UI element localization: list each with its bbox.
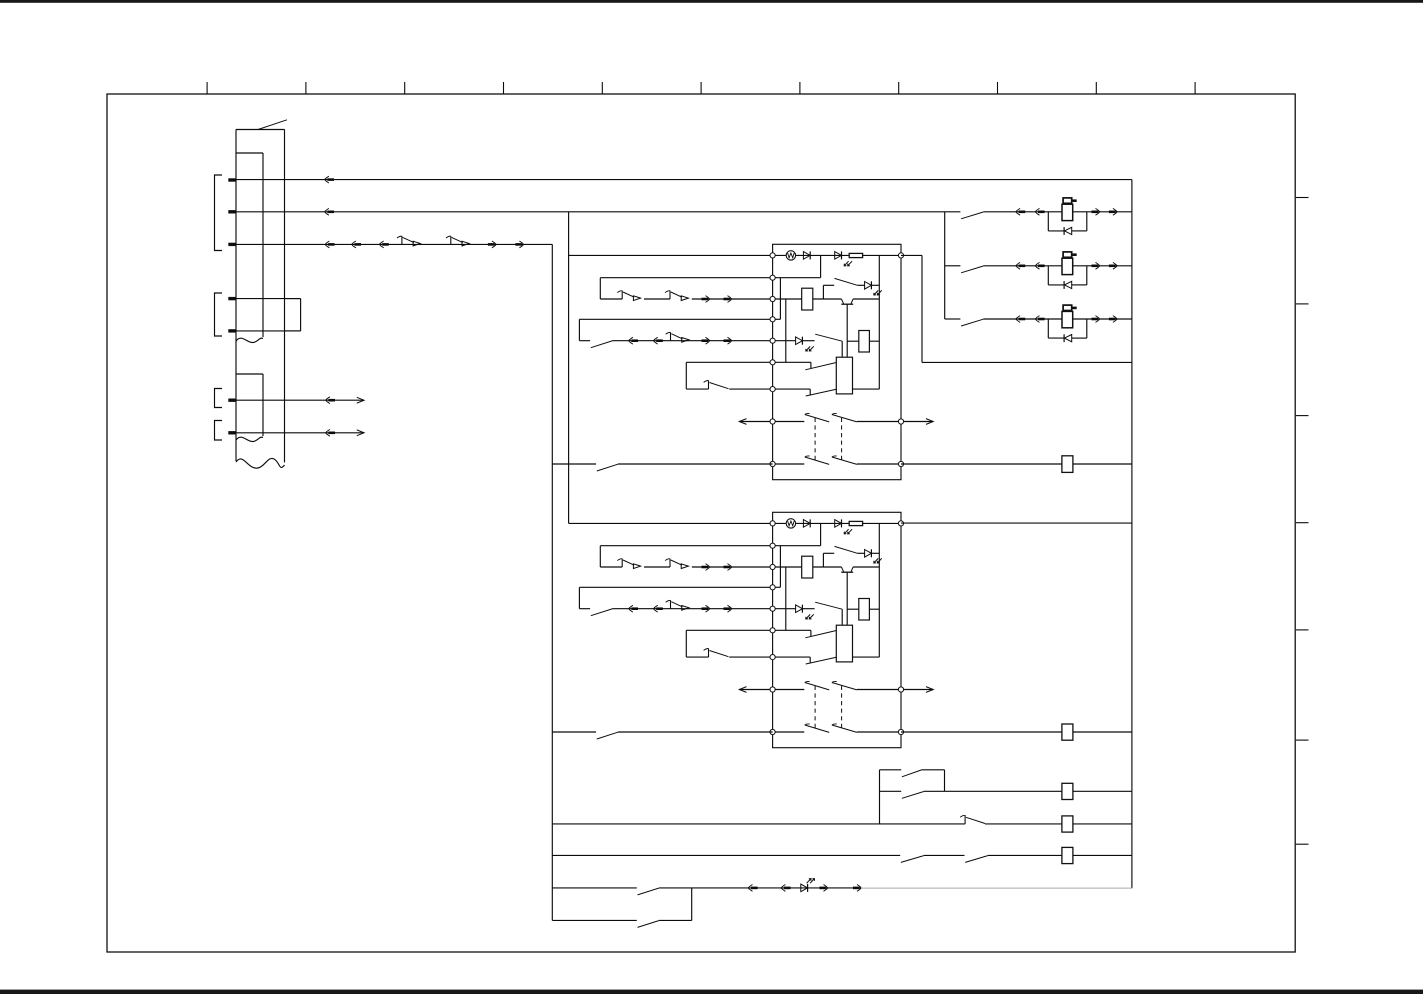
wire pin2 net bbox=[773, 277, 821, 279]
diode D2c bbox=[857, 552, 864, 554]
internal vertical A bbox=[779, 278, 781, 320]
switch blade row 2 bbox=[961, 266, 983, 273]
right ruler tick marks bbox=[1296, 198, 1309, 845]
row9 contacts bbox=[773, 463, 805, 465]
LED D10 bbox=[801, 884, 808, 892]
fuse F1 bbox=[1062, 456, 1073, 473]
flyback diode of Y3 bbox=[1063, 334, 1065, 342]
diode D2a bbox=[803, 520, 810, 528]
fuse F3 bbox=[1062, 783, 1073, 799]
row 888 faint continuation bbox=[861, 887, 1132, 889]
harness pin terminal 6 bbox=[228, 399, 236, 402]
row8 right arrow bbox=[901, 689, 933, 691]
coil to transistor wire bbox=[813, 566, 842, 568]
LED D2d bbox=[796, 605, 803, 613]
connector pairs loop1 unit 1 bbox=[702, 298, 709, 301]
cam switch loop3 unit 1 bbox=[708, 380, 710, 389]
cam switch row 824 bbox=[964, 815, 966, 824]
transistor Q2 bbox=[841, 567, 843, 572]
bracket group pins 1-3 bbox=[215, 175, 223, 251]
arrow head pin7 wire bbox=[357, 430, 364, 436]
LED D2d emission arrows bbox=[806, 614, 810, 619]
contact blade pin6 bbox=[805, 363, 836, 370]
unit 2 top supply wire bbox=[773, 522, 901, 524]
solenoid valve Y1 snubber loop bbox=[1047, 212, 1049, 231]
row 824 wire bbox=[552, 823, 965, 825]
wire pin3 to relay coil bbox=[773, 566, 802, 568]
connector pairs on W3 bbox=[325, 241, 329, 248]
switch blade row 920 bbox=[638, 921, 659, 928]
fuse F2 bbox=[1062, 724, 1073, 740]
wire W3 bbox=[229, 243, 552, 245]
wire W2 bbox=[229, 211, 960, 213]
harness pin terminal 1 bbox=[228, 178, 236, 181]
motor M1 bbox=[786, 251, 795, 260]
harness pin terminal 7 bbox=[228, 431, 236, 434]
diode D1c bbox=[857, 284, 864, 286]
harness connector plug block bbox=[300, 299, 302, 331]
solenoid valve Y2 snubber loop bbox=[1047, 266, 1049, 285]
contact blade pin7 bbox=[806, 657, 837, 664]
solenoid connector cap Y3 bbox=[1063, 305, 1072, 310]
relay blade middle bbox=[815, 334, 842, 341]
connector pair pin7 wire bbox=[326, 429, 330, 436]
top ruler tick marks bbox=[207, 82, 1195, 94]
switch blade row9' feed bbox=[597, 732, 618, 739]
harness pin terminal 2 bbox=[228, 210, 236, 213]
LED D2c emission arrows bbox=[874, 558, 878, 563]
cam switch loop1-a unit 1 bbox=[621, 291, 623, 300]
switch blade row 791 bbox=[902, 792, 924, 799]
unit2 row9 right wire to fuse bbox=[901, 731, 1062, 733]
internal long vertical bbox=[878, 523, 880, 657]
solenoid coil Y1 bbox=[1062, 204, 1073, 220]
vertical bus from W3 bbox=[551, 244, 553, 920]
internal vertical A bbox=[779, 546, 781, 588]
harness break wavy bottom bbox=[236, 458, 285, 468]
wire pin6 row bbox=[773, 361, 811, 363]
row9 contacts bbox=[773, 731, 805, 733]
fuse F4 bbox=[1062, 816, 1073, 832]
row8 contacts bbox=[773, 689, 805, 691]
harness wire pin7 stub bbox=[229, 432, 364, 434]
switch blade loop2 unit 1 bbox=[591, 341, 612, 348]
connector pairs loop2 left unit 2 bbox=[629, 605, 633, 612]
loop box 1 unit 2 bbox=[600, 545, 772, 547]
fuse F5 bbox=[1062, 847, 1073, 863]
connector pairs loop1 unit 2 bbox=[702, 566, 709, 569]
relay box right lead bbox=[853, 388, 880, 390]
connector pair on W2 bbox=[325, 208, 329, 215]
resistor R2a bbox=[849, 521, 862, 525]
transistor Q1 bbox=[841, 299, 843, 304]
relay contact blade top bbox=[835, 546, 858, 553]
solenoid coil Y2 bbox=[1062, 258, 1073, 274]
row8 right arrow bbox=[901, 421, 933, 423]
internal vertical B bbox=[785, 567, 787, 630]
bottom relay box left vertical bbox=[879, 770, 881, 824]
mechanical linkage dashed lines bbox=[814, 418, 816, 463]
relay contact blade top bbox=[835, 278, 858, 285]
connector pairs row 3 left bbox=[1016, 316, 1020, 323]
relay armature box bbox=[836, 357, 852, 394]
right vertical bus bbox=[1131, 180, 1133, 889]
loop box 2 unit 2 bbox=[579, 586, 772, 588]
diode D1a bbox=[803, 252, 810, 260]
cam switch loop1-a unit 2 bbox=[621, 559, 623, 568]
loop box 2 unit 1 bbox=[579, 318, 772, 320]
harness inner bundle B bbox=[236, 373, 263, 375]
connector pair pin6 wire bbox=[326, 397, 330, 404]
arrow head pin6 wire bbox=[357, 397, 364, 403]
connector pairs W3 right bbox=[488, 243, 495, 246]
row8 contacts bbox=[773, 421, 805, 423]
junction vertical feeding solenoid rows bbox=[944, 212, 946, 319]
motor M2 bbox=[786, 519, 795, 528]
wire W1 supply top bbox=[229, 179, 1132, 181]
solenoid connector cap Y2 bbox=[1063, 252, 1072, 257]
coil to transistor wire bbox=[813, 298, 842, 300]
internal net vertical from diode bbox=[820, 523, 822, 545]
harness pin terminal 4 bbox=[228, 297, 236, 300]
relay coil K2 bbox=[802, 556, 813, 578]
connector pairs loop2 left unit 1 bbox=[629, 337, 633, 344]
unit2 supply wire to bus bbox=[901, 522, 1132, 524]
bottom row fuse feed bbox=[880, 790, 902, 792]
unit1 top-right jog wire bbox=[901, 254, 922, 256]
cam switch loop1-b unit 1 bbox=[669, 291, 671, 300]
blade to relay armature vertical bbox=[841, 341, 843, 357]
wire pin6 row bbox=[773, 629, 811, 631]
cam switch S1 on W3 bbox=[401, 236, 403, 245]
resistor R1b bbox=[847, 340, 859, 342]
flyback diode of Y2 bbox=[1063, 281, 1065, 289]
flyback diode of Y1 bbox=[1063, 227, 1065, 235]
harness pin terminal 5 bbox=[228, 329, 236, 332]
solenoid row 3 wire bbox=[983, 318, 1132, 320]
switch blades row 855 bbox=[901, 856, 924, 863]
internal vertical B bbox=[785, 299, 787, 362]
internal net vertical from diode bbox=[820, 255, 822, 277]
LED D1c emission arrows bbox=[874, 290, 878, 295]
bottom relay box top row bbox=[880, 769, 902, 771]
unit 1 supply row bbox=[569, 254, 773, 256]
unit 1 terminal circles right bbox=[898, 253, 903, 258]
wire pin7 row bbox=[773, 656, 811, 658]
relay coil K1 bbox=[802, 288, 813, 310]
solenoid coil Y3 bbox=[1062, 311, 1073, 327]
LED D2b bbox=[835, 520, 842, 528]
unit 1 terminal circles left bbox=[770, 253, 775, 258]
row8 left arrow bbox=[739, 421, 772, 423]
contact blade pin7 bbox=[806, 389, 837, 396]
harness inner bundle A bbox=[236, 152, 263, 154]
blade to relay armature vertical bbox=[841, 609, 843, 625]
wire pin4 stub bbox=[773, 318, 781, 320]
unit 1 outline bbox=[773, 244, 901, 479]
harness slash symbol bbox=[258, 120, 287, 130]
connector pair on W1 bbox=[325, 176, 329, 183]
switch blade row 3 bbox=[961, 319, 983, 326]
harness wire pin4 to plug bbox=[229, 298, 301, 300]
switch blade row 888 bbox=[638, 888, 659, 895]
unit2 row9 left feed bbox=[552, 731, 596, 733]
switch blade row9 feed bbox=[597, 464, 618, 471]
unit 2 terminal circles left bbox=[770, 521, 775, 526]
cable harness outer bundle box bbox=[235, 130, 237, 462]
LED D1b bbox=[835, 252, 842, 260]
row 888 wire bbox=[552, 887, 637, 889]
connector pairs loop2 right unit 2 bbox=[702, 607, 709, 610]
mechanical linkage dashed lines bbox=[814, 686, 816, 731]
unit1 row9 right wire to fuse bbox=[901, 463, 1062, 465]
inner bundle B wavy break bbox=[236, 437, 263, 441]
harness wire pin6 stub bbox=[229, 399, 364, 401]
unit 2 terminal circles right bbox=[898, 521, 903, 526]
base feed bracket bbox=[822, 285, 824, 299]
row8 left arrow bbox=[739, 689, 772, 691]
relay armature box bbox=[836, 625, 852, 662]
vertical feed line x568 bbox=[568, 212, 570, 524]
row 920 loop vertical bbox=[691, 888, 693, 921]
connector pairs row 1 left bbox=[1016, 208, 1020, 215]
relay blade middle bbox=[815, 602, 842, 609]
connector pairs loop2 right unit 1 bbox=[702, 339, 709, 342]
cam switch loop3 unit 2 bbox=[708, 648, 710, 657]
cam switch loop2 unit 2 bbox=[670, 600, 672, 609]
drawing frame border bbox=[107, 94, 1295, 952]
transistor emitter lead bbox=[846, 572, 848, 625]
solenoid row 2 lead bbox=[945, 265, 961, 267]
solenoid row 1 wire bbox=[983, 211, 1132, 213]
harness pin terminal 3 bbox=[228, 243, 236, 246]
bracket group pins 4-5 bbox=[215, 293, 223, 336]
unit 2 supply row bbox=[569, 522, 773, 524]
resistor R2b bbox=[847, 608, 859, 610]
relay box right lead bbox=[853, 656, 880, 658]
bracket pin 7 bbox=[215, 421, 223, 441]
inner bundle A wavy break bbox=[236, 338, 263, 342]
bracket pin 6 bbox=[215, 389, 223, 408]
row 855 wire bbox=[552, 854, 900, 856]
wire pin7 row bbox=[773, 388, 811, 390]
connector pairs row 888 right bbox=[820, 887, 827, 890]
connector pairs row 2 left bbox=[1016, 262, 1020, 269]
transistor emitter lead bbox=[846, 304, 848, 357]
LED D1b emission arrows bbox=[844, 261, 848, 266]
loop box 1 unit 1 bbox=[600, 277, 772, 279]
solenoid valve Y3 snubber loop bbox=[1047, 319, 1049, 338]
harness wire pin5 to plug bbox=[229, 330, 301, 332]
bottom page border bar bbox=[0, 990, 1423, 994]
row 920 loop wire bbox=[552, 919, 637, 921]
resistor R1a bbox=[849, 253, 862, 257]
base feed bracket bbox=[822, 553, 824, 567]
solenoid connector cap Y1 bbox=[1063, 198, 1072, 203]
connector pairs row 1 right bbox=[1092, 211, 1099, 214]
LED D1d bbox=[796, 337, 803, 345]
solenoid row 3 lead bbox=[945, 318, 961, 320]
contact blade pin6 bbox=[805, 631, 836, 638]
bottom relay box right vertical bbox=[944, 770, 946, 792]
wire pin5 row bbox=[773, 608, 796, 610]
wire pin5 row bbox=[773, 340, 796, 342]
connector pairs row 888 left bbox=[748, 885, 752, 892]
LED D2b emission arrows bbox=[844, 529, 848, 534]
LED D10 emission arrows bbox=[807, 879, 811, 884]
connector pairs row 3 right bbox=[1092, 318, 1099, 321]
unit 2 outline bbox=[773, 512, 901, 747]
internal long vertical bbox=[878, 255, 880, 389]
connector pairs row 2 right bbox=[1092, 264, 1099, 267]
switch blade row 1 bbox=[961, 212, 983, 219]
loop box 3 unit 1 bbox=[686, 361, 772, 363]
top page border bar bbox=[0, 0, 1423, 3]
switch blade loop2 unit 2 bbox=[591, 609, 612, 616]
solenoid row 2 wire bbox=[983, 265, 1132, 267]
unit 1 top supply wire bbox=[773, 254, 901, 256]
unit1 row9 left feed bbox=[552, 463, 596, 465]
wire pin3 to relay coil bbox=[773, 298, 802, 300]
loop box 3 unit 2 bbox=[686, 629, 772, 631]
cam switch loop2 unit 1 bbox=[670, 332, 672, 341]
cam switch loop1-b unit 2 bbox=[669, 559, 671, 568]
wire pin2 net bbox=[773, 545, 821, 547]
wire pin4 stub bbox=[773, 586, 781, 588]
cam switch S2 on W3 bbox=[450, 236, 452, 245]
LED D1d emission arrows bbox=[806, 346, 810, 351]
